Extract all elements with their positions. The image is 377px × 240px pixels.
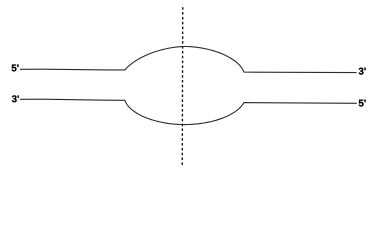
label 5' left	[12, 65, 19, 72]
top strand (5' left to 3' right) with upper bubble arc	[20, 47, 357, 73]
dashed center axis line	[181, 7, 184, 166]
label 3' right	[359, 68, 366, 75]
bottom strand (3' left to 5' right) with lower bubble arc	[20, 99, 357, 124]
label 5' right	[359, 100, 366, 107]
label 3' left	[12, 95, 19, 102]
